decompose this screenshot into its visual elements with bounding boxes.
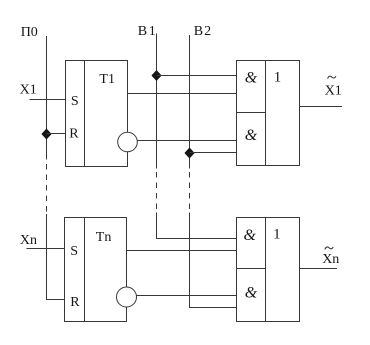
svg-text:B2: B2 [194,24,212,39]
svg-text:S: S [71,94,79,109]
svg-text:S: S [70,244,78,259]
wire B2 dashed continuation [189,172,191,212]
junction dot П0 to R of T1 [42,129,51,139]
svg-text:&: & [244,227,257,244]
wire B1 dashed continuation [156,172,158,212]
wire X1 to S input of T1 [30,99,66,101]
svg-text:X1: X1 [325,84,342,99]
inverter bubble on Tn [117,287,137,307]
svg-text:R: R [69,126,79,141]
wire B1 vertical upper [156,34,158,169]
flip-flop Tn [65,218,127,322]
wire inverted output of T1 [137,140,236,142]
junction dot B1 [152,71,161,81]
flip-flop T1 [66,61,128,167]
inverter bubble on T1 [118,132,138,152]
gate block U1 (AND-OR for X1) [237,61,300,166]
svg-text:B1: B1 [138,24,158,39]
wire Q output of Tn [127,250,237,252]
svg-text:Xn: Xn [322,252,339,267]
svg-text:T1: T1 [99,72,115,87]
wire B2 to lower block lower AND gate [190,213,237,308]
svg-text:&: & [245,127,258,144]
wire B1 to upper AND gate [157,75,237,77]
wire П0 dashed continuation [46,164,48,214]
wire П0 to R input of T1 [47,133,66,135]
svg-text:1: 1 [274,70,282,86]
svg-text:Tn: Tn [96,230,112,245]
svg-text:1: 1 [273,227,281,243]
svg-text:&: & [245,70,258,87]
wire Q output of T1 [128,93,237,95]
wire П0 vertical upper [46,36,48,160]
gate block U2 (AND-OR for Xn) [237,218,300,322]
label ~X1 [325,76,342,98]
svg-text:Xn: Xn [20,233,37,248]
wire П0 vertical lower [47,214,65,300]
svg-text:&: & [245,284,258,301]
svg-text:П0: П0 [21,25,38,40]
svg-text:X1: X1 [20,83,37,98]
wire B2 to lower AND of upper block [190,152,237,154]
junction dot B2 [185,148,194,158]
wire inverted output of Tn [137,295,237,297]
wire output ~Xn [300,268,338,270]
wire B1 to lower block AND gate [157,213,237,239]
wire output ~X1 [300,106,343,108]
wire Xn to S input of Tn [27,248,65,250]
wire B2 vertical upper [189,35,191,169]
label ~Xn [322,247,339,267]
svg-text:R: R [70,295,80,310]
